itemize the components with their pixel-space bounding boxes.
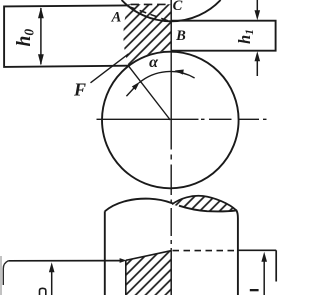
dimension b0 arrow — [51, 271, 53, 295]
scan edge artifact — [0, 256, 2, 295]
workpiece section lens hatch — [172, 196, 236, 212]
svg-text:α: α — [149, 54, 159, 71]
dimension h0 arrow — [40, 8, 42, 64]
strip break line left — [3, 261, 8, 285]
section of strip under roll: hatched — [126, 251, 172, 295]
plan strip exit edge b1 visible — [238, 249, 276, 251]
radius line to entry point (contact angle) — [129, 66, 171, 120]
roll axis vertical line C-B (solid) — [170, 0, 172, 51]
svg-text:B: B — [175, 28, 186, 44]
hatched section right boundary — [170, 251, 172, 295]
svg-text:C: C — [173, 0, 183, 14]
top roll (upper work roll arc) — [122, 0, 221, 21]
roll barrel left edge (front view cylinder) — [104, 211, 106, 295]
hatched section top boundary — [126, 251, 171, 261]
F leader line — [91, 54, 129, 83]
workpiece section lens outline — [172, 196, 236, 211]
incoming strip (h0 bar) — [4, 5, 128, 67]
svg-text:A: A — [111, 10, 122, 26]
feed direction arrowhead — [120, 258, 127, 263]
dashed line h0 level through bite — [131, 3, 172, 5]
alpha arc right arrow — [175, 70, 184, 75]
roll barrel top silhouette — [105, 199, 234, 212]
strip break line right — [275, 250, 277, 281]
deformation zone hatch — [123, 4, 171, 66]
alpha arc left arrow — [126, 85, 137, 97]
hatched section left boundary — [125, 260, 127, 295]
svg-text:F: F — [73, 80, 86, 100]
dimension h1 arrows — [256, 0, 258, 12]
vertical centerline (dash-dot) — [170, 51, 172, 252]
label b0 fragment (cut by image edge) — [40, 288, 46, 295]
horizontal centerline of bottom roll — [97, 118, 267, 120]
angle alpha arc — [139, 71, 195, 82]
bottom roll (lower work roll circle) — [102, 52, 239, 189]
plan strip entry edge b0 — [8, 260, 120, 262]
roll barrel right shoulder and edge — [179, 206, 238, 295]
outgoing strip (h1 bar) — [171, 21, 276, 51]
dashed chord A-B of contact arc — [129, 7, 171, 22]
plan strip exit edge b1 hidden (dashed) — [173, 250, 238, 252]
label b1 fragment (cut by image edge) — [250, 289, 259, 291]
dimension b1 arrow — [263, 261, 265, 296]
